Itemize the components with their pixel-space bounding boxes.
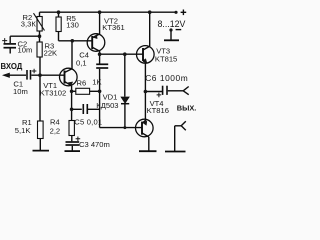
svg-text:8...12V: 8...12V — [158, 19, 186, 29]
svg-text:VD1: VD1 — [103, 93, 118, 102]
svg-text:2,2: 2,2 — [50, 127, 61, 136]
svg-text:ВХОД: ВХОД — [1, 62, 23, 71]
svg-text:C6 1000m: C6 1000m — [145, 73, 188, 83]
svg-text:5,1K: 5,1K — [15, 126, 31, 135]
svg-text:130: 130 — [66, 20, 79, 29]
svg-text:C3 470m: C3 470m — [79, 140, 110, 149]
svg-text:10m: 10m — [13, 87, 28, 96]
svg-text:КД503: КД503 — [96, 101, 118, 110]
svg-text:KT815: KT815 — [155, 54, 177, 63]
svg-text:KT361: KT361 — [102, 23, 124, 32]
svg-text:C5 0,01: C5 0,01 — [74, 118, 102, 127]
svg-text:10m: 10m — [18, 46, 33, 55]
svg-text:3,3К: 3,3К — [21, 19, 37, 28]
svg-text:KT816: KT816 — [147, 106, 169, 115]
svg-text:R6: R6 — [77, 78, 87, 87]
svg-text:22K: 22K — [44, 48, 58, 57]
svg-text:ВЫХ.: ВЫХ. — [177, 103, 197, 112]
svg-text:0,1: 0,1 — [76, 58, 87, 67]
svg-text:KT3102: KT3102 — [40, 89, 67, 98]
svg-text:1K: 1K — [92, 77, 101, 86]
svg-text:R4: R4 — [50, 117, 60, 126]
